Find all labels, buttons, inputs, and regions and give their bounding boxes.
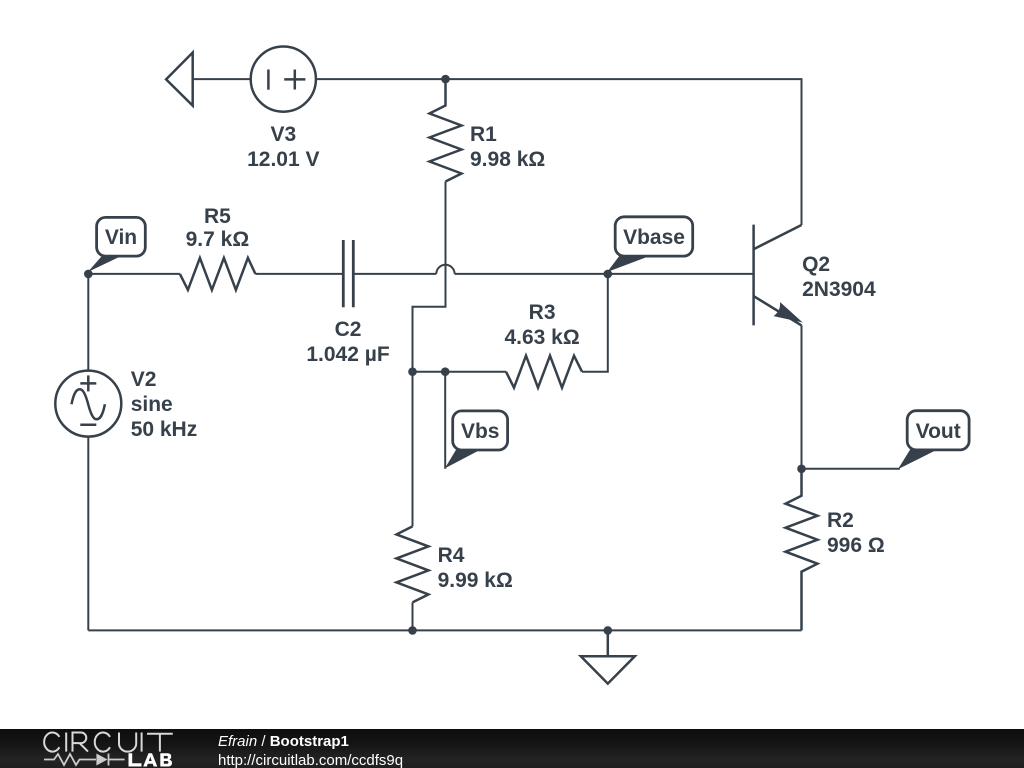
resistor R3 (506, 356, 582, 388)
CircuitLab logo (0, 729, 200, 768)
resistor R5 (180, 258, 256, 290)
node Vbase (604, 270, 613, 279)
node A (408, 367, 417, 376)
svg-text:R4: R4 (438, 544, 465, 567)
voltage source V2 (55, 371, 121, 437)
transistor Q2 (754, 225, 803, 326)
V3 terminal arrow (166, 53, 193, 106)
R3 value label (504, 301, 579, 349)
R5 value label (186, 205, 250, 251)
svg-text:996 Ω: 996 Ω (827, 534, 885, 557)
resistor R2 (786, 469, 818, 631)
svg-text:R5: R5 (204, 205, 231, 228)
wire R4 bottom (412, 602, 414, 630)
C2 value label (306, 318, 389, 366)
svg-text:9.98 kΩ: 9.98 kΩ (470, 148, 545, 171)
svg-text:R3: R3 (529, 301, 556, 324)
wire Vin to R5 (88, 273, 180, 275)
wire hop over R1 branch (436, 265, 454, 274)
svg-text:R2: R2 (827, 509, 854, 532)
svg-text:9.99 kΩ: 9.99 kΩ (438, 569, 513, 592)
svg-text:Vbs: Vbs (461, 420, 500, 443)
svg-text:2N3904: 2N3904 (802, 278, 876, 301)
svg-text:R1: R1 (470, 123, 497, 146)
flag Vbs (445, 411, 508, 469)
footer bar (0, 729, 1024, 768)
wire V3 to top-right corner (316, 79, 802, 225)
svg-text:Vin: Vin (105, 226, 137, 249)
node top (V+ rail) (441, 75, 450, 84)
svg-text:50 kHz: 50 kHz (131, 418, 198, 441)
svg-text:Vbase: Vbase (623, 226, 685, 249)
node ground (604, 626, 613, 635)
svg-text:Vout: Vout (916, 420, 961, 443)
wire emitter down to Vout node (801, 325, 803, 468)
node B (441, 367, 450, 376)
wire R5 to C2 (255, 273, 343, 275)
svg-text:9.7 kΩ: 9.7 kΩ (186, 228, 250, 251)
svg-text:4.63 kΩ: 4.63 kΩ (504, 326, 579, 349)
svg-text:V3: V3 (270, 123, 296, 146)
R2 value label (827, 509, 885, 557)
Q2 value label (802, 253, 876, 301)
node Vin (84, 270, 93, 279)
svg-text:V2: V2 (131, 368, 157, 391)
node R4-rail (408, 626, 417, 635)
ground (581, 630, 635, 683)
wire node A to R3 (413, 371, 507, 373)
voltage source V3 (251, 47, 316, 112)
svg-text:1.042 µF: 1.042 µF (306, 343, 389, 366)
node Vout (797, 465, 806, 474)
svg-text:12.01 V: 12.01 V (247, 148, 319, 171)
svg-text:sine: sine (131, 393, 173, 416)
resistor R4 (397, 526, 429, 602)
resistor R1 (430, 79, 462, 181)
wire R1 down through hop to node A (413, 182, 446, 372)
wire hop to Q2 base (455, 273, 754, 275)
flag Vout (898, 411, 969, 470)
wire C2 to hop (353, 273, 436, 275)
V2 value label (131, 368, 198, 441)
flag Vbase (607, 217, 693, 272)
wire V2 bottom to rail (87, 437, 89, 631)
flag Vin (88, 217, 146, 272)
capacitor C2 (343, 240, 353, 307)
svg-text:Q2: Q2 (802, 253, 830, 276)
wire Vout node to flag (802, 468, 900, 470)
R4 value label (438, 544, 513, 592)
wire R3 to Vbase (582, 274, 608, 372)
footer credits (218, 732, 403, 768)
wire V2 top (87, 274, 89, 371)
svg-text:C2: C2 (335, 318, 362, 341)
wire Vbs stub (444, 372, 446, 469)
bottom rail wire (88, 629, 801, 631)
wire arrow to V3 (193, 78, 251, 80)
V3 value label (247, 123, 319, 171)
R1 value label (470, 123, 545, 171)
wire R4 top (412, 372, 414, 527)
